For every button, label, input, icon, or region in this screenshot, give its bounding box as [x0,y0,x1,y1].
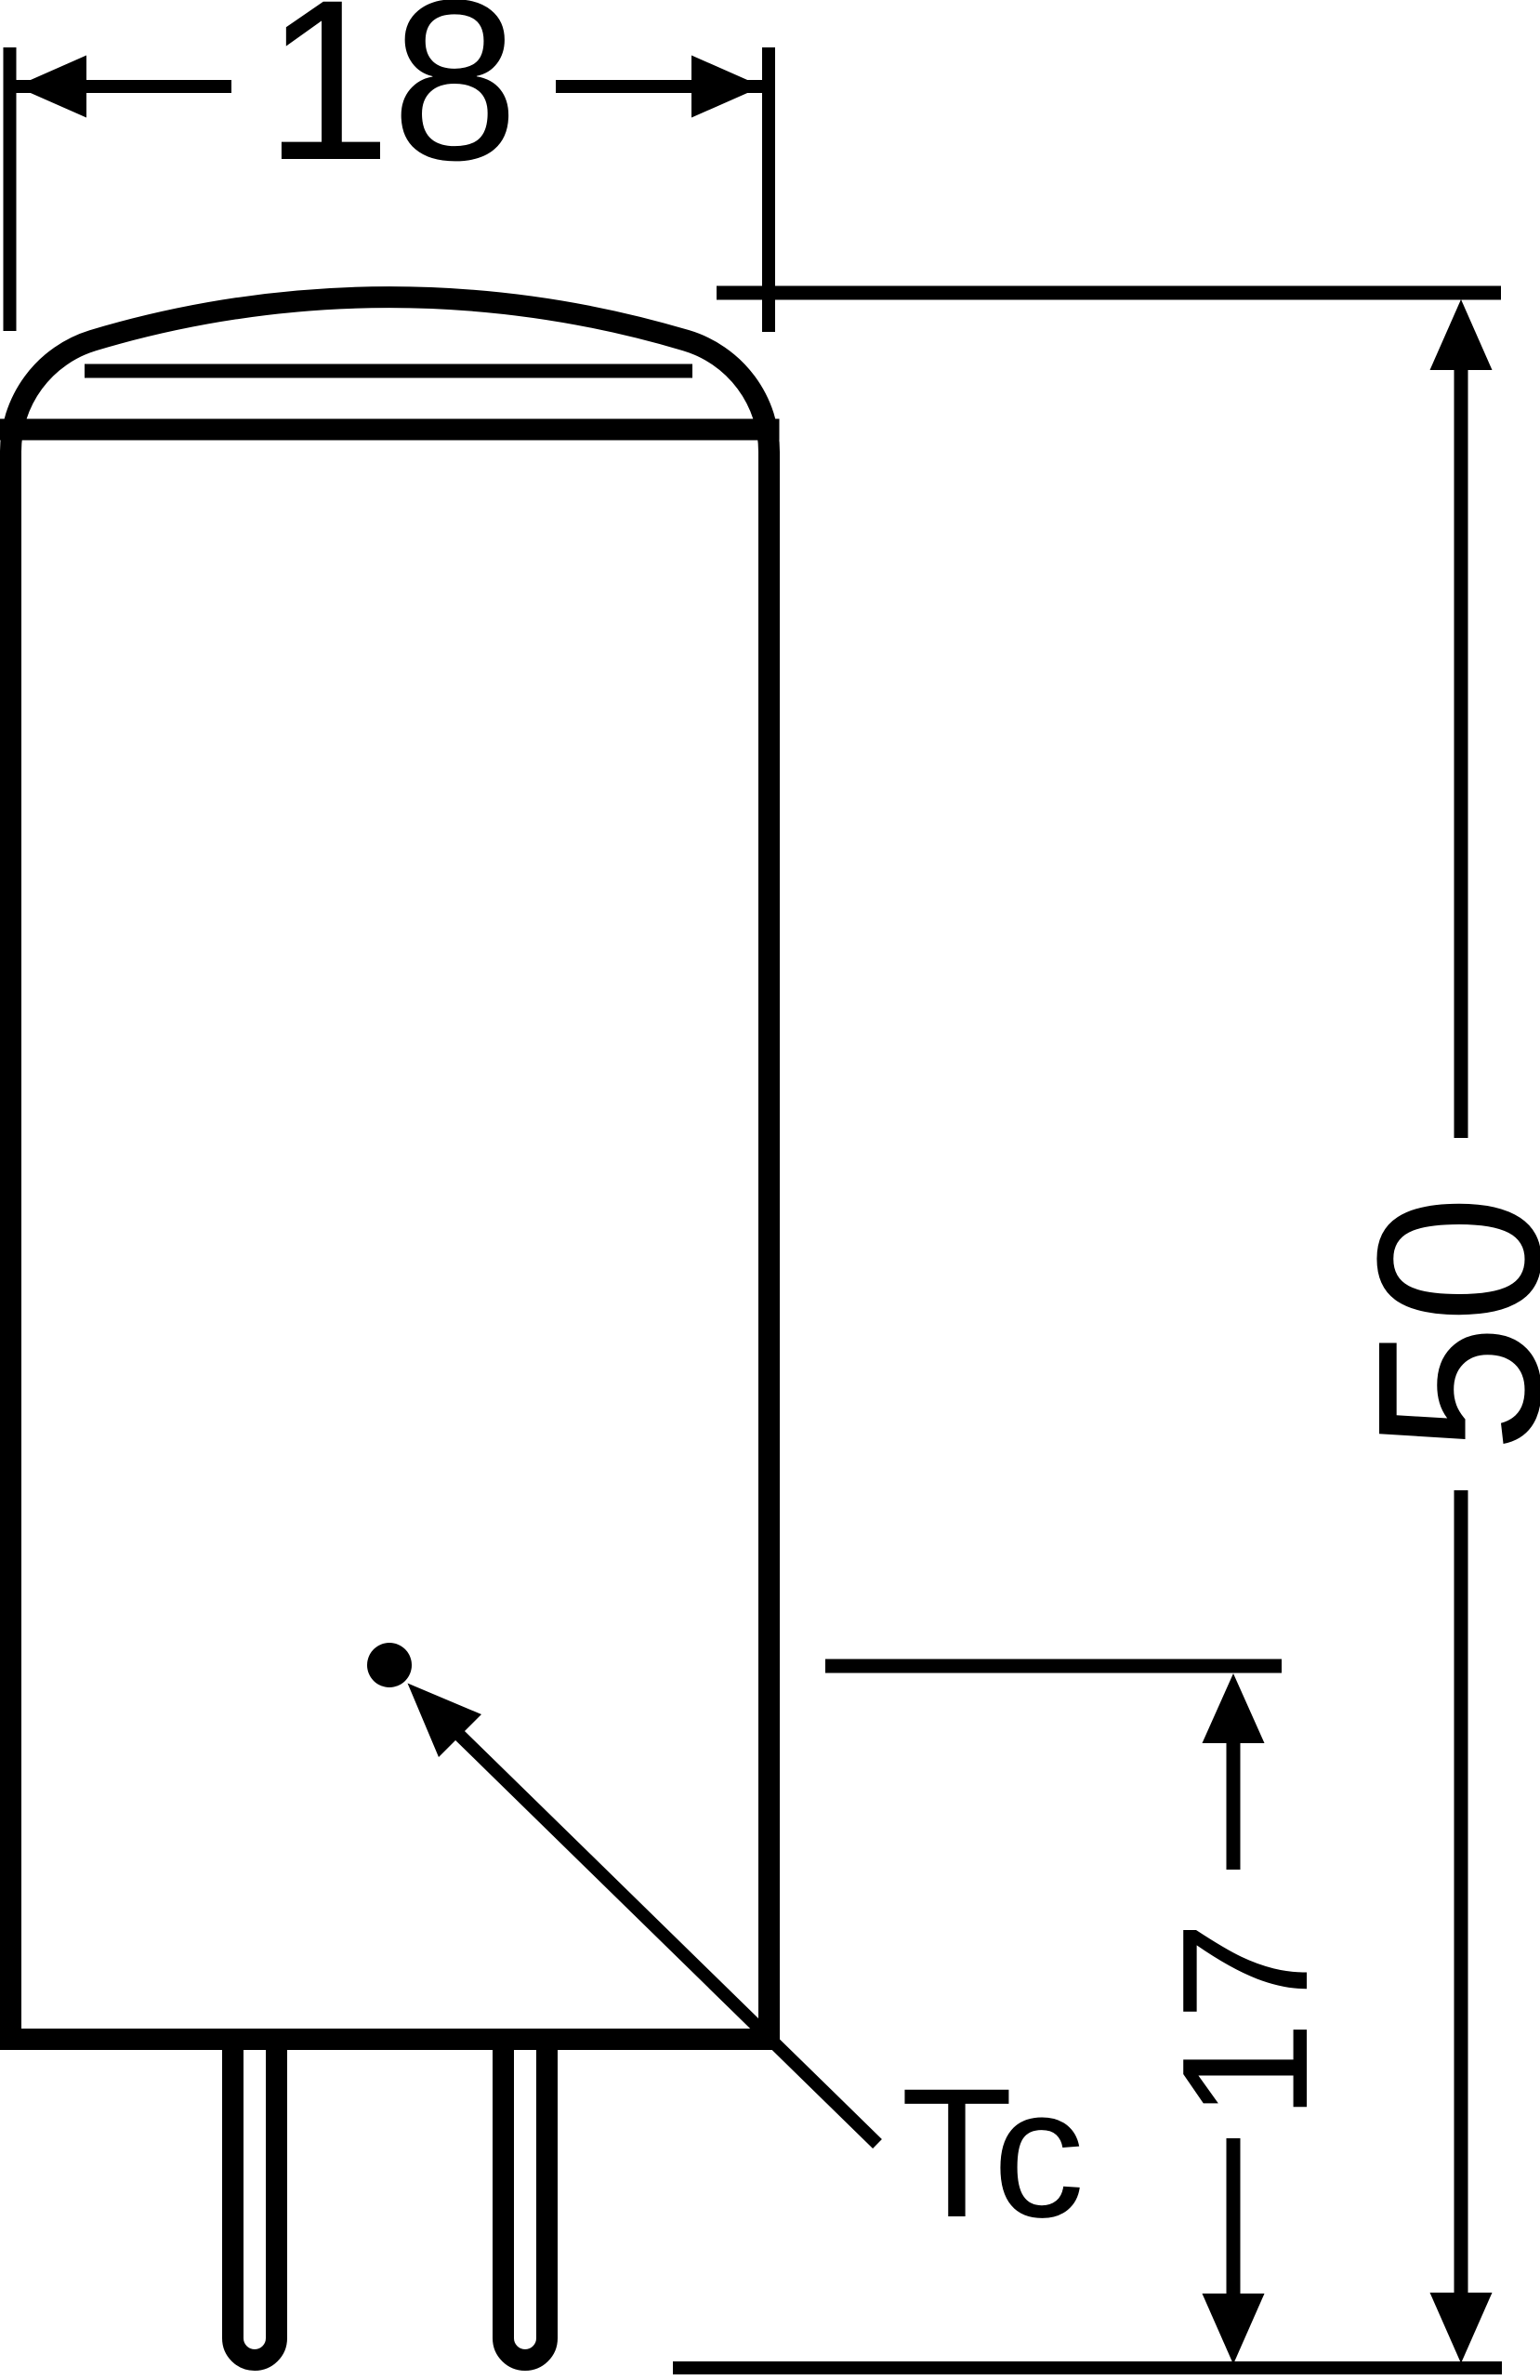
pin 1 [233,2045,277,2360]
dimension 18: left arrowhead [16,56,86,118]
lamp dome chord line [85,364,692,378]
Tc leader line [457,1733,877,2144]
dimension 17: up arrowhead [1203,1673,1265,1743]
Tc leader arrowhead [408,1684,482,1758]
dimension 17: top reference line [825,1659,1282,1673]
svg-text:17: 17 [1144,1921,1345,2121]
dimension 50: top arrowhead [1430,299,1493,370]
lamp neck line [0,419,780,441]
dimension 17: upper dimension line segment [1227,1729,1241,1870]
svg-text:18: 18 [264,0,519,208]
dimension 17: down arrowhead [1203,2294,1265,2364]
dimension 18: left extension line [4,47,17,331]
Tc measurement point (dot) [367,1643,412,1687]
dimension 50: top reference line [717,286,1501,300]
dimension 18: right arrowhead [691,56,762,118]
svg-text:Tc: Tc [901,2050,1085,2255]
dimension 50: bottom arrowhead [1430,2293,1493,2363]
dimension 50: lower dimension line segment [1454,1490,1468,2324]
dimension 50: upper dimension line segment [1454,335,1468,1138]
dimension 18: left arrow shaft [16,80,231,93]
pin 2 [504,2045,547,2360]
dimension 17: lower dimension line segment [1227,2138,1241,2324]
dimension 18: right extension line [762,47,775,332]
lamp body outline [10,297,769,2040]
dimension 50: bottom reference line [673,2361,1502,2374]
svg-text:50: 50 [1329,1195,1540,1453]
dimension 18: right arrow shaft [556,80,762,93]
